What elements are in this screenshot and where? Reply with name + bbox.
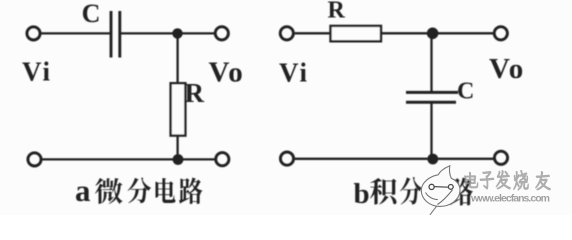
caption: a 微分电路 <box>75 173 203 208</box>
node: junction dot bottom (left circuit) <box>173 154 184 165</box>
watermark logo: elecfans swallow <box>421 166 460 215</box>
wire: capacitor to bottom node (right) <box>430 104 432 160</box>
wire: resistor to node B <box>381 32 428 34</box>
wire: right bottom rail <box>295 158 494 160</box>
svg-text:www.elecfans.com: www.elecfans.com <box>470 193 550 205</box>
terminal: right circuit input top <box>280 27 293 40</box>
svg-text:a: a <box>75 173 91 208</box>
svg-text:b: b <box>354 178 370 210</box>
svg-text:R: R <box>328 0 346 24</box>
svg-text:Vi: Vi <box>279 58 309 88</box>
terminal: left circuit output top <box>215 27 228 40</box>
wire: node B down to capacitor C <box>430 33 432 91</box>
svg-text:Vo: Vo <box>489 53 525 85</box>
wire: input to resistor R (right) <box>295 32 331 34</box>
wire: left top rail, input to capacitor <box>41 32 110 34</box>
terminal: left circuit input top <box>27 27 40 40</box>
capacitor C (left circuit, series) <box>111 11 120 58</box>
wire: node B to output terminal <box>433 32 494 34</box>
node A: junction dot top (left circuit) <box>172 28 182 38</box>
terminal: left circuit output bottom <box>216 153 229 166</box>
wire: resistor R to bottom node <box>176 136 178 160</box>
wire: left bottom rail <box>42 158 215 160</box>
watermark text: 电子发烧友 <box>464 171 550 191</box>
svg-text:Vo: Vo <box>209 57 245 89</box>
wire: node A to output terminal <box>178 32 215 34</box>
terminal: right circuit input bottom <box>280 152 293 165</box>
terminal: left circuit input bottom <box>28 153 41 166</box>
svg-text:C: C <box>457 79 474 105</box>
svg-text:R: R <box>185 78 205 108</box>
node B: junction dot top (right circuit) <box>427 28 439 40</box>
svg-text:Vi: Vi <box>22 57 52 87</box>
node: junction dot bottom (right circuit) <box>427 154 438 165</box>
caption: b 积分电路 <box>354 177 473 210</box>
capacitor C (right circuit, shunt) <box>406 92 458 102</box>
resistor R (left circuit, shunt) <box>171 83 186 135</box>
wire: capacitor to node A <box>121 32 177 34</box>
resistor R (right circuit, series) <box>331 26 382 41</box>
svg-text:C: C <box>82 0 101 28</box>
terminal: right circuit output top <box>494 27 507 40</box>
wire: node A down to resistor R <box>176 33 178 84</box>
terminal: right circuit output bottom <box>494 151 507 164</box>
